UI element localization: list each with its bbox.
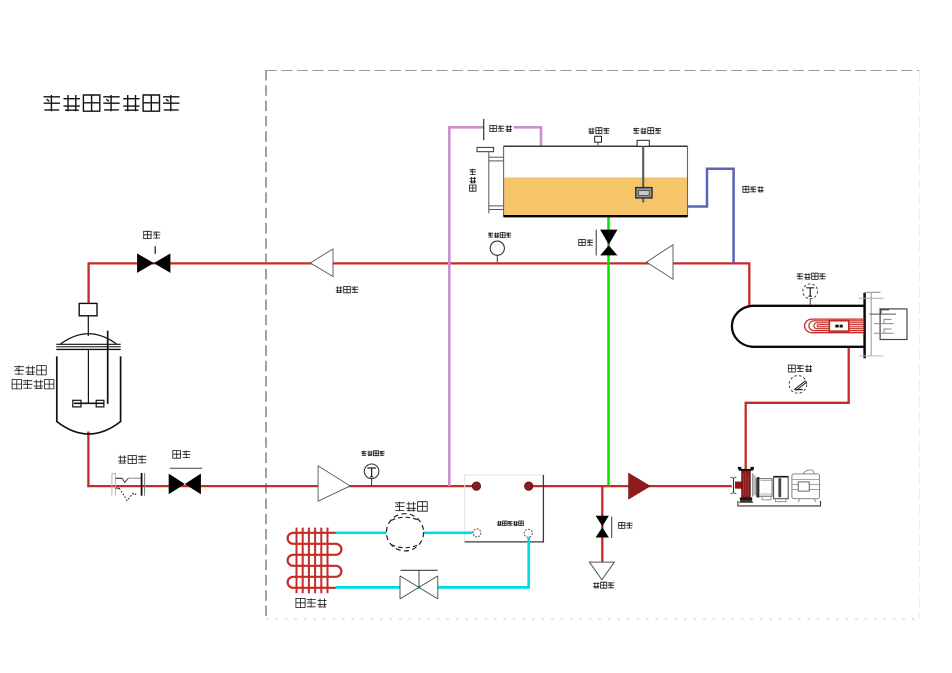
salt filler port 加盐口 square (595, 136, 602, 146)
label 感温探头 (488, 233, 511, 238)
terminal step mark 1 (869, 310, 896, 314)
wire red supply pipe top horizontal (y=263) (89, 262, 750, 264)
label underline for valve V3 (170, 467, 203, 469)
wire red return pipe bottom horizontal right part (y=486) (527, 485, 732, 487)
tank salt/water reservoir outline (503, 146, 687, 216)
relief valve arrow A1 (open, points left) 泄压阀 (310, 249, 333, 277)
wire red pipe right drop into heater tank inlet (748, 262, 750, 306)
level gauge tube and ticks (489, 152, 504, 214)
float level sensor 液位检测 (636, 140, 652, 202)
vent fitting tick mark 排气件 (484, 119, 514, 140)
pump coupling section 2 (774, 477, 789, 502)
label 泄压阀 (336, 286, 358, 292)
pump casing foot (dark) (739, 497, 754, 502)
pump bearing bracket (753, 474, 755, 497)
wire blue overflow pipe 溢流管 (688, 169, 734, 262)
wire red drain branch down from return pipe (601, 486, 603, 563)
pump motor body (792, 470, 820, 502)
stirred vessel motor box (79, 303, 97, 315)
boundary dashed border right edge (918, 70, 920, 619)
vessel internal dip tube / baffle (107, 331, 109, 404)
stirred vessel dome lid (61, 334, 117, 344)
label 阀门 (valve V3) (173, 451, 191, 459)
check arrow A2 (open, points left) (647, 245, 674, 280)
label 控温对象 line2 (12, 380, 54, 389)
boundary dashed border top edge (266, 70, 920, 72)
label 排液口 (593, 582, 614, 588)
junction node dot right (dark red) (525, 482, 533, 490)
flange top tie lines (gray) (859, 292, 884, 356)
wire purple vent pipe from tank top (449, 127, 541, 486)
label 液位检测 (633, 128, 661, 134)
condenser 冷凝器 serpentine coil (288, 533, 342, 588)
valve V4 阀门 on drain branch (black bowtie vertical) (596, 516, 612, 538)
label 加热保护 (797, 273, 826, 279)
filter 过滤器 (strainer symbol) (112, 473, 145, 501)
label 压缩机 (395, 502, 427, 512)
temperature sensor T circle on return pipe (364, 464, 379, 486)
pump inlet flange (double vertical with curls) (731, 477, 737, 494)
boundary dashed border bottom edge (266, 618, 919, 620)
plate heat exchanger 板式换热器 rectangle (465, 475, 544, 542)
pump suction stub (dark red) (735, 482, 742, 489)
label 阀门 (drain valve) (619, 522, 633, 528)
stirred vessel body walls and curved bottom (57, 356, 121, 434)
stirrer paddle with end blades (73, 400, 104, 407)
label 溢流管 (743, 186, 764, 192)
tank salt/water reservoir liquid fill (504, 177, 687, 216)
pressure gauge 压力表 dashed circle with needle (789, 376, 807, 394)
compressor 压缩机 dashed circle (386, 514, 423, 551)
condenser fin lines (297, 528, 328, 594)
refrigerant port circle right (open, dashed) (524, 529, 532, 537)
temperature probe 感温探头 circle (490, 241, 504, 262)
wire cyan refrigerant condenser to compressor (336, 531, 387, 534)
wire red pipe horizontal tank-outlet to pump leg (745, 402, 850, 404)
label 液位计 (vertical) (470, 169, 476, 191)
pump top flange with bolts (738, 467, 754, 470)
label 感温探头 (return) (362, 451, 385, 456)
stirrer shaft inside vessel (87, 349, 89, 403)
heater junction box (880, 309, 907, 340)
heater tank right flange plate (863, 293, 866, 358)
wire cyan refrigerant compressor to heat exchanger (424, 531, 473, 534)
label 加盐口 (588, 128, 609, 134)
label 阀门 (green line valve) (579, 239, 593, 245)
valve V3 阀门 lower (black bowtie) (169, 474, 201, 495)
expansion valve (open X bowtie with stem) (400, 570, 438, 599)
terminal step mark 2 (874, 319, 894, 323)
label 阀门 (valve V1) (144, 231, 161, 238)
flow arrow A4 (solid dark red, points right) (628, 473, 651, 500)
wire red pipe heater tank outlet down (848, 346, 850, 403)
label 过滤器 (118, 455, 146, 463)
wire green drain pipe from tank bottom to return pipe (607, 216, 610, 486)
valve V2 阀门 on green line (bowtie vertical) (596, 230, 617, 256)
heater element nested U tubes (red) (805, 319, 865, 333)
heater tank secondary flange line (870, 293, 872, 356)
wire red pipe vessel bottom outlet down (87, 432, 89, 488)
pump casing (dark red vertical body) (742, 470, 751, 498)
pump baseplate (738, 501, 821, 506)
label 排气件 (490, 125, 512, 131)
wire red pipe left drop to stirred vessel motor (87, 262, 89, 304)
level gauge 液位计 top box (477, 147, 494, 151)
label 客户端 line1 (14, 366, 46, 375)
wire red pipe vertical leg down to pump inlet (745, 402, 747, 469)
flow arrow A3 (open, points right) (318, 466, 350, 501)
stirred vessel shaft from motor (87, 316, 89, 336)
drain funnel 排液口 (open triangle down) (589, 562, 614, 580)
title 系统原理参考图 (44, 95, 180, 111)
boundary dashed border left edge (265, 70, 267, 619)
heater element terminal label box (829, 321, 849, 332)
thermostat 加热保护 dashed circle with T (803, 284, 818, 305)
terminal step mark 3 (874, 329, 894, 333)
pump coupling section 1 (756, 477, 772, 500)
junction node dot left (dark red) (472, 482, 480, 490)
stirred vessel flange (3 lines) (56, 344, 120, 349)
wire cyan refrigerant heat exchanger down and left to condenser (336, 537, 529, 588)
valve V1 阀门 top-left (black bowtie) (137, 246, 170, 273)
label 冷凝器 (296, 598, 327, 607)
label 压力表 (788, 365, 812, 372)
label 板式换热器 (497, 521, 523, 526)
wire red return pipe bottom horizontal left part (y=486) (87, 485, 478, 487)
refrigerant port circle left (open, dashed) (473, 529, 481, 537)
heater tank body (capsule, rounded left end) (732, 306, 864, 347)
